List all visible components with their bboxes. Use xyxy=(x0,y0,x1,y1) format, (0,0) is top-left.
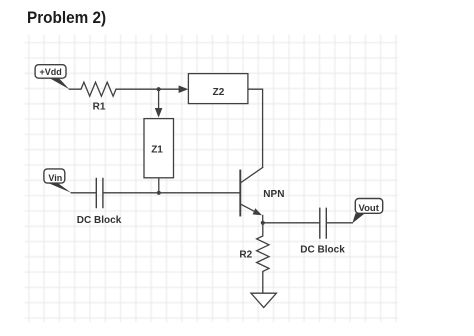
svg-text:Vout: Vout xyxy=(359,203,380,214)
svg-text:Vin: Vin xyxy=(48,173,62,183)
svg-text:NPN: NPN xyxy=(263,189,284,200)
svg-text:DC Block: DC Block xyxy=(300,244,345,255)
svg-text:R1: R1 xyxy=(93,101,106,112)
svg-text:Z2: Z2 xyxy=(213,87,225,98)
svg-text:+Vdd: +Vdd xyxy=(40,67,62,77)
svg-text:Z1: Z1 xyxy=(151,145,163,156)
svg-text:R2: R2 xyxy=(239,250,252,261)
svg-text:DC Block: DC Block xyxy=(77,215,122,226)
